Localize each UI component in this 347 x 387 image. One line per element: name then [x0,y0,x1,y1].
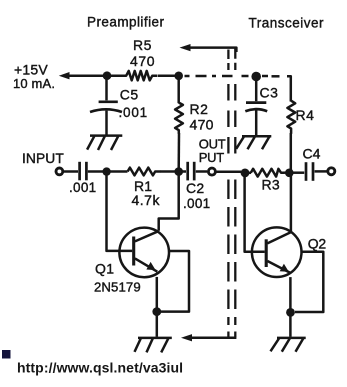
svg-text:470: 470 [130,53,155,69]
svg-text:R5: R5 [133,37,152,53]
svg-text:OUT: OUT [199,136,226,151]
svg-text:R2: R2 [190,101,209,117]
svg-text:PUT: PUT [199,150,224,165]
svg-text:C2: C2 [186,180,205,196]
svg-text:R4: R4 [296,107,315,123]
svg-text:470: 470 [190,117,214,133]
svg-text:Preamplifier: Preamplifier [87,15,164,30]
svg-text:10 mA.: 10 mA. [13,76,55,91]
svg-text:Transceiver: Transceiver [249,15,325,30]
svg-text:.001: .001 [119,105,148,120]
svg-text:C4: C4 [303,146,321,162]
svg-text:R3: R3 [262,177,281,193]
svg-text:4.7k: 4.7k [132,192,161,208]
svg-text:http://www.qsl.net/va3iul: http://www.qsl.net/va3iul [17,359,183,375]
svg-text:C3: C3 [260,85,279,101]
svg-text:.001: .001 [183,196,210,211]
svg-text:.001: .001 [69,180,96,195]
svg-text:Q2: Q2 [308,235,327,251]
svg-text:C5: C5 [120,86,139,102]
svg-text:2N5179: 2N5179 [94,279,141,294]
svg-text:Q1: Q1 [95,261,114,277]
svg-text:INPUT: INPUT [22,151,64,166]
